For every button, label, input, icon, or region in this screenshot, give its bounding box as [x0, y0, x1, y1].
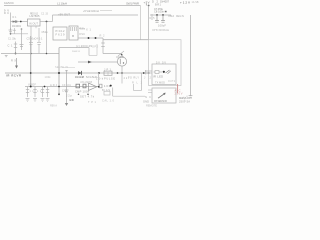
wire stub left	[151, 14, 153, 20]
svg-text:1N4007: 1N4007	[160, 0, 170, 3]
receiver box	[152, 88, 176, 103]
connector lower marks	[148, 90, 152, 93]
wire regulator out	[40, 21, 53, 23]
node junction x59	[58, 72, 60, 74]
node junction rly	[143, 72, 145, 74]
wire trim down	[112, 88, 114, 97]
svg-text:VREF: VREF	[28, 83, 36, 87]
wire to switch	[103, 53, 122, 55]
capacitor C8	[161, 15, 165, 22]
copyright frame top	[59, 47, 89, 49]
node junction mid rail	[10, 33, 12, 35]
component small r	[100, 84, 102, 88]
wire Q1 collector up	[121, 55, 123, 58]
svg-text:10k: 10k	[96, 76, 104, 80]
resistor R7	[41, 87, 44, 98]
wire sense stub	[62, 67, 75, 69]
svg-text:4MHz: 4MHz	[79, 27, 86, 31]
transistor Q1 emitter dot	[123, 62, 124, 63]
wire +5V stub	[145, 4, 147, 6]
wire into regulator	[11, 21, 28, 23]
wire bottom run	[113, 95, 145, 97]
voltage regulator U2 box	[28, 19, 41, 26]
svg-text:TP1: TP1	[88, 100, 97, 104]
resistor R5	[26, 87, 29, 98]
ground arrow C6	[65, 103, 68, 106]
trim box	[104, 91, 110, 95]
svg-text:GND: GND	[143, 100, 149, 104]
wire out cap drop	[46, 22, 48, 54]
svg-text:7812: 7812	[168, 14, 175, 18]
red mains line	[177, 84, 179, 93]
node junction b	[95, 37, 97, 39]
regulator gnd stubs	[35, 26, 37, 28]
capacitor C1b column	[13, 28, 16, 34]
svg-text:R2: R2	[100, 34, 106, 38]
node junction box entry	[148, 72, 150, 74]
wire input drop	[10, 13, 12, 31]
ground symbol g4	[46, 99, 50, 102]
svg-text:CAL 1.0: CAL 1.0	[102, 98, 115, 102]
wire right supply rail	[150, 14, 171, 16]
node dot d2	[87, 93, 89, 95]
resistor R1 column	[14, 42, 17, 54]
svg-text:PIC12: PIC12	[56, 29, 66, 33]
wire relay leg	[133, 84, 135, 91]
wire +12V rail vertical	[190, 15, 192, 96]
svg-text:SW1 PWR: SW1 PWR	[126, 2, 140, 6]
node junction q	[117, 72, 119, 74]
ground tick	[5, 56, 8, 57]
wire relay bottom	[134, 90, 142, 92]
ground symbol g2	[33, 99, 37, 102]
node x59 end dot	[58, 93, 60, 95]
svg-text:100uF: 100uF	[158, 24, 166, 28]
jumper JP1 box	[104, 71, 112, 75]
op-amp U3	[89, 83, 97, 90]
svg-text:ADJ: ADJ	[50, 83, 58, 87]
svg-text:+5V OUT: +5V OUT	[58, 13, 70, 17]
crystal pins	[71, 27, 76, 31]
svg-text:OPTO MODULE: OPTO MODULE	[152, 29, 169, 32]
capacitor C1	[9, 28, 13, 34]
svg-text:www.xx: www.xx	[72, 50, 81, 53]
wire Q1 down	[121, 66, 123, 73]
copyright frame left	[58, 48, 60, 95]
node junction C8	[162, 14, 164, 16]
node junction tr	[121, 72, 123, 74]
svg-text:L1 10uH: L1 10uH	[57, 1, 67, 5]
svg-text:C8 100n: C8 100n	[154, 10, 165, 14]
node opamp out	[98, 86, 100, 88]
svg-text:U3A LM358: U3A LM358	[80, 81, 93, 84]
wire top +V rail	[4, 5, 141, 7]
connector into box	[145, 70, 152, 75]
svg-text:230V: 230V	[175, 92, 183, 96]
transistor Q1 bar	[119, 59, 121, 64]
node junction osc	[30, 86, 32, 88]
svg-text:TO RLY: TO RLY	[128, 75, 139, 79]
node C6 top tick	[65, 70, 68, 72]
svg-text:REG IN: REG IN	[176, 14, 184, 18]
resistor in emitter box	[154, 71, 163, 74]
svg-text:1N4148: 1N4148	[75, 75, 85, 79]
node junction on rail	[148, 5, 150, 7]
svg-text:PULSE: PULSE	[104, 76, 115, 80]
svg-text:X1: X1	[86, 28, 92, 32]
capacitor C6	[65, 70, 69, 103]
svg-text:C9 10n: C9 10n	[62, 85, 72, 87]
svg-text:REMOTE: REMOTE	[146, 104, 157, 108]
svg-text:C6: C6	[62, 89, 67, 93]
enclosure box	[149, 40, 181, 86]
wire small vert	[96, 44, 98, 56]
svg-text:1N4001: 1N4001	[12, 24, 22, 28]
svg-text:BR1: BR1	[155, 2, 162, 6]
svg-text:4k7: 4k7	[124, 76, 131, 80]
svg-text:D1: D1	[13, 16, 18, 19]
svg-text:RX: RX	[11, 59, 16, 63]
faint stub line	[100, 10, 112, 12]
node junction out	[46, 21, 48, 23]
node dot d1	[78, 93, 80, 95]
svg-text:CMP 100k: CMP 100k	[75, 90, 90, 94]
switch S1	[118, 51, 124, 56]
svg-text:GP2: GP2	[92, 44, 99, 48]
wire small bottom	[89, 55, 97, 57]
svg-text:RL1: RL1	[132, 80, 143, 84]
svg-text:F629: F629	[56, 32, 66, 36]
node junction r7	[44, 86, 46, 88]
svg-text:IR LED: IR LED	[153, 75, 163, 79]
svg-text:Q1 BC5: Q1 BC5	[116, 55, 125, 59]
ground bus	[1, 53, 59, 55]
svg-text:RX SENSOR: RX SENSOR	[154, 99, 167, 103]
diode D1	[13, 20, 17, 23]
svg-text:DC: DC	[4, 11, 9, 15]
svg-text:JP1: JP1	[104, 67, 112, 71]
svg-text:9-12V DC: 9-12V DC	[4, 1, 14, 5]
svg-text:D5: D5	[150, 17, 156, 20]
svg-text:REV A: REV A	[50, 103, 57, 107]
node dot C2 top	[21, 28, 23, 30]
copyright frame right	[88, 48, 90, 56]
svg-text:+5 Vdc 100mA: +5 Vdc 100mA	[83, 9, 99, 13]
node emitter dot	[163, 71, 165, 73]
wire long output run	[103, 39, 149, 41]
IR arrowhead	[15, 66, 18, 69]
component K2	[83, 84, 86, 88]
capacitor C7	[155, 15, 159, 22]
resistor R8	[46, 87, 49, 98]
node junction x59 low	[58, 86, 60, 88]
svg-text:C1: C1	[8, 44, 14, 48]
svg-text:C2 .33: C2 .33	[41, 13, 49, 16]
node junction C7	[156, 14, 158, 16]
emitter box	[152, 64, 176, 85]
wire sensor column	[30, 36, 32, 87]
wire U1 output	[78, 37, 103, 39]
capacitor C2 column	[20, 29, 24, 51]
svg-text:IN OUT: IN OUT	[29, 22, 38, 25]
wire Q1 below	[121, 73, 123, 84]
crystal X1 box	[69, 26, 78, 40]
svg-text:SET 4.7k: SET 4.7k	[80, 94, 95, 98]
node junction a	[88, 37, 90, 39]
svg-text:TX MOD: TX MOD	[155, 81, 165, 85]
svg-text:IR RCVR: IR RCVR	[6, 74, 21, 78]
diode D3 on wire	[78, 71, 82, 75]
diode D4 on sense line	[88, 61, 92, 64]
svg-text:C4 0.1: C4 0.1	[35, 37, 44, 41]
svg-text:REG U2: REG U2	[30, 12, 39, 15]
svg-text:1A SB: 1A SB	[192, 1, 199, 4]
svg-text:OUT2: OUT2	[168, 81, 176, 83]
svg-text:OSC: OSC	[79, 32, 85, 36]
resistor R6	[33, 87, 36, 98]
node X1 pin dot	[72, 35, 73, 36]
wire up to 5V rail	[52, 15, 54, 22]
wire opamp feedback	[98, 73, 100, 87]
node switch dot	[121, 54, 123, 56]
svg-text:C5 1u: C5 1u	[42, 30, 49, 34]
svg-text:100k: 100k	[45, 76, 52, 79]
wire relay drop	[141, 73, 143, 91]
node junction ground R1	[15, 53, 17, 55]
wire 5V rail	[53, 14, 139, 16]
mark small dark	[165, 11, 167, 13]
component K1	[76, 84, 80, 88]
IR receiver arrow	[16, 58, 18, 66]
svg-text:(c) 2003-09: (c) 2003-09	[76, 44, 93, 48]
ground symbol g3	[41, 99, 45, 102]
wire sense line	[78, 61, 118, 63]
ground symbol g1	[26, 99, 30, 102]
capacitor C3 column	[29, 26, 33, 54]
node junction C2 ground	[46, 53, 48, 55]
node junction c	[98, 72, 100, 74]
svg-text:22p: 22p	[66, 93, 73, 97]
svg-text:+12V: +12V	[180, 0, 190, 4]
wire detector rail	[5, 72, 149, 74]
capacitor C4 column	[37, 28, 41, 54]
svg-text:10k: 10k	[104, 84, 111, 88]
wire into supply box	[148, 6, 150, 40]
wire osc rail	[25, 86, 99, 88]
resistor R2 vertical	[101, 38, 105, 54]
pot arrow diagonal	[158, 93, 166, 99]
IR LED arrow	[166, 70, 171, 74]
node junction sensor	[30, 72, 32, 74]
jumper JP1 inner tick	[107, 72, 109, 75]
microcontroller U1 box	[53, 27, 67, 40]
node junction C3 ground	[30, 53, 32, 55]
wire 12v end tick	[189, 96, 193, 98]
wire drop from rail	[140, 6, 142, 40]
node dot big	[110, 85, 112, 87]
svg-text:GND: GND	[69, 98, 74, 102]
svg-text:C1 .33u: C1 .33u	[8, 37, 17, 40]
transistor Q1 circle	[117, 57, 126, 66]
node junction after D1	[20, 21, 22, 23]
wire mid rail	[11, 33, 29, 35]
